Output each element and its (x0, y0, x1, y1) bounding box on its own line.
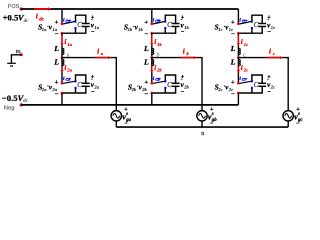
source bottom wire (phase b) (201, 121, 203, 127)
phase c output wire (238, 58, 288, 111)
svg-text:1c: 1c (218, 27, 222, 32)
source bottom wire (phase a) (115, 121, 117, 127)
switch arm of cell 1c (239, 22, 251, 25)
switch pole node (2c) (237, 82, 240, 85)
phase c leg wire below upper cell (237, 33, 239, 57)
phase c upper leg wire (237, 9, 239, 24)
switch throw contacts (1a) (75, 21, 77, 23)
svg-text:L: L (143, 44, 149, 53)
svg-text:i: i (154, 64, 156, 72)
output current arrow i_c (267, 57, 280, 59)
phase b leg wire below upper cell (151, 33, 153, 57)
svg-text:1a: 1a (94, 25, 99, 30)
svg-text:−0.5: −0.5 (2, 93, 18, 103)
switch-cell S1c box (252, 15, 262, 23)
svg-text:C: C (77, 21, 82, 29)
POS dc rail wire (21, 8, 238, 10)
cell bottom junction (2c) (237, 92, 240, 95)
arm current arrow i2a (61, 66, 63, 70)
svg-text:+: + (144, 79, 148, 86)
switch throw contacts (2c) (251, 80, 253, 82)
capacitor C plates of cell 1c (258, 23, 266, 25)
svg-text:+: + (231, 19, 235, 26)
svg-text:L: L (53, 44, 59, 53)
neutral bus wire n (116, 126, 288, 128)
svg-text:2b: 2b (156, 68, 162, 73)
svg-text:1b: 1b (157, 42, 162, 47)
cell bottom junction (2a) (61, 92, 64, 95)
svg-text:i: i (64, 64, 66, 72)
phase c leg wire below lower cell (237, 93, 239, 105)
phase c leg wire between node and lower cell (237, 58, 239, 84)
grid voltage source v_ga (111, 111, 121, 121)
svg-text:−: − (181, 89, 185, 95)
svg-text:2c: 2c (217, 87, 222, 92)
svg-text:dc: dc (24, 19, 30, 24)
svg-text:C: C (254, 21, 259, 29)
capacitor C plates of cell 1a (82, 23, 90, 25)
svg-text:a: a (101, 51, 104, 56)
arm current arrow i2c (237, 66, 239, 70)
output current arrow i_b (181, 57, 194, 59)
cell bottom junction (1c) (237, 32, 240, 35)
phase a leg wire below upper cell (61, 33, 63, 57)
svg-text:−: − (296, 121, 300, 127)
ground symbol (7, 62, 16, 64)
NEG dc rail wire (21, 104, 238, 106)
svg-text:−: − (231, 31, 235, 38)
source bottom wire (phase c) (287, 121, 289, 127)
arm current arrow i1c (237, 35, 239, 43)
svg-text:1c: 1c (244, 42, 248, 47)
switch arm of cell 2b (153, 81, 165, 83)
capacitor C plates of cell 1b (172, 23, 180, 25)
switch arm of cell 1a (63, 22, 75, 25)
svg-text:−: − (181, 30, 185, 36)
switch arm of cell 2a (63, 81, 75, 83)
switch throw contacts (1b) (164, 21, 166, 23)
svg-text:m: m (16, 48, 21, 55)
svg-text:−: − (268, 89, 272, 95)
svg-text:s: s (125, 112, 128, 117)
svg-text:+: + (231, 79, 235, 86)
dc current arrow i_dc on POS rail (34, 8, 48, 10)
NEG rail start node (20, 103, 23, 106)
svg-text:1b: 1b (184, 25, 189, 30)
svg-text:C: C (167, 81, 172, 89)
svg-text:+: + (144, 19, 148, 26)
grid voltage source v_gb (197, 111, 207, 121)
svg-text:L: L (53, 58, 59, 67)
output current arrow i_a (95, 57, 108, 59)
svg-text:C: C (167, 21, 172, 29)
svg-text:−: − (231, 91, 235, 98)
switch pole node (2b) (150, 82, 153, 85)
svg-text:1b: 1b (138, 27, 143, 32)
switch-cell S1b box (165, 15, 175, 23)
svg-text:s: s (297, 112, 300, 117)
arm current arrow i2b (151, 66, 153, 70)
svg-text:−: − (144, 31, 148, 38)
svg-text:2a: 2a (66, 68, 72, 73)
ac node c (237, 56, 240, 59)
svg-text:−: − (91, 30, 95, 36)
switch pole node (2a) (61, 82, 64, 85)
svg-text:1c: 1c (271, 25, 275, 30)
svg-text:+0.5: +0.5 (3, 12, 19, 22)
svg-text:s: s (211, 112, 214, 117)
svg-text:C: C (254, 81, 259, 89)
svg-text:C: C (77, 81, 82, 89)
svg-text:−: − (55, 91, 59, 98)
capacitor C plates of cell 2c (258, 82, 266, 84)
svg-text:i: i (97, 48, 99, 56)
svg-text:−: − (124, 121, 128, 127)
switch throw contacts (1c) (251, 21, 253, 23)
phase b upper leg wire (151, 9, 153, 24)
arm current arrow i1a (61, 35, 63, 43)
svg-text:1a: 1a (67, 42, 72, 47)
capacitor C plates of cell 2a (82, 82, 90, 84)
svg-text:−: − (55, 31, 59, 38)
svg-text:c: c (273, 51, 275, 56)
svg-text:L: L (230, 58, 236, 67)
cell bottom junction (2b) (150, 92, 153, 95)
midpoint terminal node (20, 53, 23, 56)
ac node b (150, 56, 153, 59)
switch-cell S2c box (252, 75, 262, 83)
svg-text:i: i (154, 38, 156, 46)
svg-text:i: i (64, 38, 66, 46)
switch pole node (1a) (61, 22, 64, 25)
svg-text:Neg: Neg (4, 106, 15, 112)
svg-text:+: + (55, 79, 59, 86)
cell bottom junction (1a) (61, 32, 64, 35)
switch arm of cell 2c (239, 81, 251, 83)
POS rail start node (20, 7, 23, 10)
phase a leg wire below lower cell (61, 93, 63, 105)
phase b leg wire between node and lower cell (151, 58, 153, 84)
ac node a (61, 56, 64, 59)
phase a leg wire between node and lower cell (61, 58, 63, 84)
svg-text:dc: dc (39, 17, 45, 22)
arm current arrow i1b (151, 35, 153, 43)
svg-text:L: L (230, 44, 236, 53)
switch throw contacts (2b) (164, 80, 166, 82)
svg-text:i: i (241, 38, 243, 46)
switch arm of cell 1b (153, 22, 165, 25)
svg-text:n: n (201, 131, 204, 137)
svg-text:i: i (183, 48, 185, 56)
switch throw contacts (2a) (75, 80, 77, 82)
grid voltage source v_gc (283, 111, 293, 121)
phase a output wire (62, 58, 116, 111)
midpoint wire (11, 55, 21, 63)
switch pole node (1b) (150, 22, 153, 25)
svg-text:i: i (241, 64, 243, 72)
svg-text:−: − (268, 30, 272, 36)
phase a upper leg wire (61, 9, 63, 24)
svg-text:b: b (187, 51, 190, 56)
switch-cell S2a box (76, 75, 86, 83)
svg-text:+: + (55, 19, 59, 26)
cell bottom junction (1b) (150, 32, 153, 35)
capacitor C plates of cell 2b (172, 82, 180, 84)
switch pole node (1c) (237, 22, 240, 25)
svg-text:L: L (143, 58, 149, 67)
svg-text:−: − (91, 89, 95, 95)
svg-text:dc: dc (23, 99, 29, 104)
switch-cell S1a box (76, 15, 86, 23)
phase b leg wire below lower cell (151, 93, 153, 105)
svg-text:−: − (144, 91, 148, 98)
svg-text:2c: 2c (243, 68, 248, 73)
phase b output wire (152, 58, 202, 111)
svg-text:POS: POS (8, 4, 20, 10)
switch-cell S2b box (165, 75, 175, 83)
svg-text:i: i (269, 48, 271, 56)
svg-text:−: − (210, 121, 214, 127)
